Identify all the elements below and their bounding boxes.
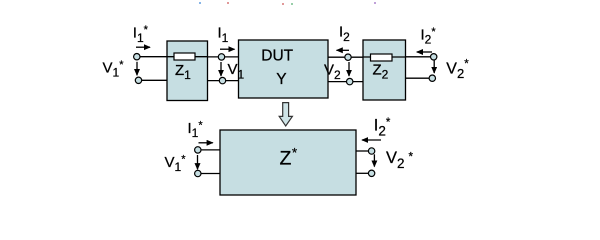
cropped text artifact dots (199, 2, 376, 5)
current arrow I2* (bottom right, points left) (362, 139, 381, 141)
terminal: port1 outer upper (134, 54, 140, 60)
DUT block (239, 40, 329, 98)
svg-text:DUT: DUT (261, 47, 293, 64)
voltage arrow V1* (bottom, down) (197, 155, 199, 169)
voltage arrow V2* (down) (433, 61, 435, 74)
impedance block Z2 (363, 40, 406, 100)
wire: Z1 internal upper (167, 56, 208, 58)
current arrow I2* (top right, points left) (417, 51, 432, 53)
wire: DUT to Z2 lower (328, 81, 363, 83)
wire: Z* right upper stub (356, 150, 370, 152)
current arrow I1* (bottom left) (199, 142, 213, 144)
wire: Z1 to DUT lower (208, 80, 239, 82)
svg-text:Y: Y (276, 71, 286, 88)
terminal: port2 outer upper (431, 54, 437, 60)
node: DUT-Z2 lower (347, 78, 353, 84)
node: Z1-DUT lower (219, 77, 225, 83)
current arrow I1* (top left) (136, 46, 150, 48)
wire: Z* right lower stub (356, 172, 370, 174)
wire: Z1 to DUT upper (208, 56, 239, 58)
node: DUT-Z2 upper (345, 54, 351, 60)
terminal: Z* right upper (368, 148, 374, 154)
current arrow I2 (points left) (337, 49, 349, 51)
wire: Z* left lower stub (200, 173, 220, 175)
impedance block Z1 (167, 41, 208, 101)
resistor inside Z1 (174, 53, 195, 60)
resistor inside Z2 (371, 54, 393, 61)
node: Z1-DUT upper (218, 54, 224, 60)
voltage arrow V1 (down) (220, 62, 222, 76)
wire: port1 outer lower (terminal to Z1) (140, 79, 167, 81)
wire: Z2 to port2 outer upper terminal (406, 56, 432, 58)
wire: DUT to Z2 upper (328, 56, 363, 58)
voltage arrow V2 (down) (348, 62, 350, 76)
voltage arrow V2* (bottom, down) (373, 154, 375, 166)
terminal: port2 outer lower (429, 75, 435, 81)
voltage arrow V1* (down) (136, 62, 138, 75)
terminal: Z* left upper (195, 147, 201, 153)
wire: port1 outer upper (terminal to Z1) (139, 56, 167, 58)
wire: Z2 to port2 outer lower terminal (406, 77, 431, 79)
current arrow I1 (220, 48, 235, 50)
terminal: Z* right lower (368, 170, 374, 176)
terminal: Z* left lower (195, 170, 201, 176)
equivalent impedance block Z* (220, 130, 356, 195)
wire: Z* left upper stub (200, 149, 220, 151)
terminal: port1 outer lower (135, 77, 141, 83)
equivalence hollow arrow (DUT to Z*) (279, 103, 292, 126)
wire: Z2 internal upper (363, 56, 406, 58)
